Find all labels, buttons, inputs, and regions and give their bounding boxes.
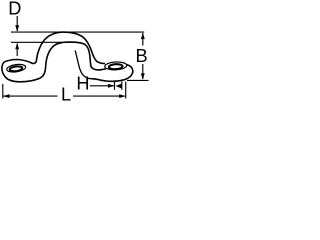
- D dimension line upper segment: [16, 16, 18, 31]
- H extension line right: [121, 82, 123, 90]
- H arrow right: [108, 84, 115, 88]
- svg-text:B: B: [136, 46, 148, 66]
- B bottom extension line: [127, 79, 149, 81]
- left hole outer rim: [6, 63, 26, 73]
- L dimension line left part: [3, 95, 58, 97]
- wire: far inner edge seen through opening: [75, 51, 92, 79]
- right hole outer rim: [105, 61, 127, 70]
- svg-text:H: H: [76, 74, 89, 94]
- B arrow down: [141, 73, 145, 79]
- L extension line right: [125, 82, 127, 99]
- H arrow left (between lines): [116, 84, 122, 89]
- L extension line left: [2, 84, 4, 99]
- L arrow right end: [119, 94, 126, 98]
- H dimension line: [90, 85, 114, 87]
- B dimension line lower segment: [142, 64, 144, 79]
- wire: outer silhouette (left foot top edge into outer arc into right pad top): [5, 32, 106, 64]
- svg-text:L: L: [61, 85, 71, 105]
- wire: left foot lower outline: [2, 62, 46, 82]
- H extension line left: [114, 82, 116, 90]
- left hole inner ring: [9, 66, 22, 72]
- L dimension line right part: [73, 95, 125, 97]
- extension line inner tangent (D lower): [11, 41, 76, 43]
- extension line top (outer tangent, D/B): [11, 31, 144, 33]
- wire: right pad outline: [92, 65, 133, 82]
- B arrow up: [141, 33, 145, 39]
- wire: inner arc: [46, 42, 107, 70]
- B dimension line upper segment: [142, 33, 144, 46]
- right hole inner ring: [109, 64, 123, 70]
- svg-text:D: D: [8, 0, 21, 19]
- D arrow up: [15, 43, 19, 49]
- L arrow left end: [3, 94, 10, 98]
- D dimension line lower segment: [16, 44, 18, 57]
- D arrow down: [15, 25, 19, 31]
